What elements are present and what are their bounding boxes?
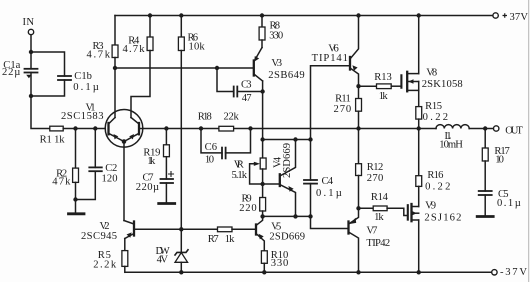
capacitor C7 (161, 178, 174, 180)
capacitor C1b (58, 75, 71, 77)
node C4 bottom (308, 214, 312, 218)
wire V3 collector column (262, 81, 264, 158)
svg-text:10k: 10k (189, 42, 206, 53)
svg-text:OUT: OUT (505, 126, 523, 137)
svg-text:22k: 22k (224, 111, 240, 122)
transistor V2 (133, 222, 135, 236)
wire C1a bottom (30, 73, 32, 97)
capacitor C6 (201, 129, 222, 153)
svg-text:IN: IN (23, 17, 35, 28)
svg-text:37V: 37V (510, 12, 529, 23)
svg-text:C3: C3 (241, 80, 252, 91)
svg-text:2SB649: 2SB649 (268, 70, 305, 81)
svg-text:10mH: 10mH (439, 140, 463, 151)
resistor R2 (75, 129, 77, 169)
wire rail y68 (115, 67, 254, 69)
transistor V1 dual (105, 110, 143, 148)
capacitor C2 (94, 129, 96, 168)
node R2 tap (73, 126, 77, 130)
transistor V7 (349, 208, 359, 224)
node C3 right (260, 89, 264, 93)
svg-text:TIP141: TIP141 (312, 53, 348, 64)
svg-text:4.7k: 4.7k (87, 50, 111, 61)
svg-text:V7: V7 (366, 226, 377, 237)
resistor R7 (181, 228, 217, 230)
svg-text:2SD669: 2SD669 (269, 232, 305, 243)
wire IN down (30, 35, 32, 69)
resistor R13 (359, 85, 377, 87)
wire C4 column up to V6 base (311, 66, 351, 140)
resistor R16 (418, 129, 420, 176)
wire V9 drain down (418, 220, 420, 272)
wire R6 down to zener node (180, 51, 182, 230)
svg-text:270: 270 (334, 104, 352, 115)
svg-text:330: 330 (269, 31, 283, 42)
svg-text:R12: R12 (367, 162, 384, 173)
resistor R3 (114, 16, 116, 46)
svg-text:VR: VR (234, 160, 245, 171)
wire V4 base (263, 183, 280, 185)
svg-text:R13: R13 (374, 72, 392, 83)
svg-text:5.1k: 5.1k (232, 170, 248, 181)
wire V1 emitter down (123, 142, 125, 221)
svg-text:2.2k: 2.2k (93, 260, 117, 271)
svg-text:47: 47 (242, 93, 252, 104)
wire bias bottom line (263, 215, 311, 217)
potentiometer VR (260, 158, 266, 169)
node zener top (179, 227, 183, 231)
svg-text:-37V: -37V (500, 267, 527, 278)
node R18 right (248, 126, 252, 130)
svg-text:4.7k: 4.7k (123, 44, 146, 55)
svg-text:V8: V8 (426, 68, 437, 79)
svg-text:2SC1583: 2SC1583 (61, 111, 104, 122)
svg-text:10: 10 (205, 155, 214, 166)
svg-text:0.22: 0.22 (425, 182, 450, 193)
terminal IN (28, 29, 33, 34)
svg-text:1k: 1k (147, 156, 156, 167)
label +37V (503, 13, 508, 18)
wire to R1 (31, 96, 50, 129)
wire top +37V rail (115, 15, 493, 17)
mosfet V9 (407, 205, 409, 219)
svg-text:330: 330 (271, 258, 289, 269)
wire C1b bottom (31, 80, 65, 96)
resistor R6 (179, 13, 183, 17)
resistor R17 (484, 129, 486, 149)
svg-text:47k: 47k (52, 177, 71, 188)
svg-text:22µ: 22µ (2, 67, 20, 78)
svg-text:4V: 4V (157, 255, 169, 266)
node output R15 (417, 126, 421, 130)
node bias bottom (260, 214, 264, 218)
svg-text:C1b: C1b (74, 71, 92, 82)
inductor L1 (436, 125, 469, 129)
scan edge artifact right (528, 0, 530, 282)
node bias top (260, 137, 264, 141)
capacitor C4 (310, 140, 312, 181)
node input bottom (29, 94, 33, 98)
transistor V6 (349, 57, 351, 70)
wire bias to V7 base (311, 216, 349, 228)
capacitor C5 (479, 190, 492, 192)
resistor R10 (261, 251, 267, 263)
svg-text:V9: V9 (425, 201, 436, 212)
wire V1 base right / output-feedback line (139, 128, 436, 130)
svg-text:R16: R16 (427, 170, 443, 181)
svg-text:C4: C4 (322, 176, 334, 187)
svg-text:1k: 1k (379, 91, 389, 102)
resistor R11 (358, 86, 360, 98)
node C3 tap (215, 66, 219, 70)
svg-text:2SK1058: 2SK1058 (422, 79, 463, 90)
transistor V5 (255, 225, 257, 235)
transistor V4 (279, 174, 281, 186)
node V6 emitter (356, 84, 360, 88)
ground C7 (159, 202, 175, 205)
node R2/C2 join (73, 197, 77, 201)
resistor R14 (359, 207, 374, 209)
svg-text:2SC945: 2SC945 (81, 231, 117, 242)
node V7 emitter (356, 206, 360, 210)
resistor R15 (416, 107, 422, 120)
resistor R19 (165, 129, 167, 145)
svg-text:120: 120 (102, 173, 118, 184)
ground (69, 212, 85, 215)
resistor R4 (148, 13, 152, 17)
node C2 tap (93, 126, 97, 130)
resistor R12 (358, 129, 360, 164)
ground C5 (477, 215, 493, 218)
resistor R9 (260, 198, 266, 212)
svg-text:R15: R15 (425, 101, 442, 112)
svg-text:220µ: 220µ (136, 182, 159, 193)
resistor R1 (50, 126, 63, 131)
svg-text:2SJ162: 2SJ162 (424, 212, 461, 223)
svg-text:R14: R14 (371, 192, 389, 203)
node C4 top line (308, 137, 312, 141)
svg-text:0.1µ: 0.1µ (316, 188, 342, 199)
capacitor C1a (25, 68, 38, 70)
capacitor C3 (217, 68, 234, 92)
svg-text:TIP42: TIP42 (366, 238, 390, 249)
svg-text:C6: C6 (205, 142, 217, 153)
svg-text:0.22: 0.22 (423, 112, 449, 123)
svg-text:0.1µ: 0.1µ (497, 198, 521, 209)
node V4 collector (293, 137, 297, 141)
svg-text:1k: 1k (374, 212, 384, 223)
resistor R18 (219, 126, 234, 131)
node V4 emitter (293, 214, 297, 218)
terminal -37V (492, 270, 497, 275)
resistor R8 (260, 13, 264, 17)
node input top (29, 50, 33, 54)
svg-text:10: 10 (495, 155, 504, 166)
wire bias top line (263, 139, 311, 141)
mosfet V8 (400, 75, 402, 87)
svg-text:220: 220 (239, 203, 257, 214)
wire R4 to V1 right collector (131, 51, 150, 118)
svg-text:R7: R7 (208, 234, 219, 245)
node R11 top (356, 126, 360, 130)
svg-text:R18: R18 (198, 111, 212, 122)
zener DW (180, 229, 182, 252)
resistor R5 (124, 239, 126, 251)
svg-text:0.1µ: 0.1µ (73, 82, 99, 93)
node VR bottom / V4 base (260, 182, 264, 186)
svg-text:R1 1k: R1 1k (40, 135, 66, 146)
node R17 top (483, 126, 487, 130)
svg-text:1k: 1k (225, 234, 235, 245)
terminal +37V (493, 13, 498, 18)
svg-text:2SD669: 2SD669 (282, 143, 293, 178)
svg-text:V3: V3 (271, 58, 282, 69)
node R18 left (199, 126, 203, 130)
node R3 bottom (113, 66, 117, 70)
wire bottom -37V rail (125, 271, 492, 273)
wire R1 to V1 base (63, 128, 105, 130)
terminal OUT (494, 126, 499, 131)
svg-text:270: 270 (367, 173, 384, 184)
wire C1b branch top (31, 52, 65, 76)
transistor V3 (261, 40, 263, 48)
wire to ground (75, 200, 77, 214)
node R19 tap (164, 126, 168, 130)
